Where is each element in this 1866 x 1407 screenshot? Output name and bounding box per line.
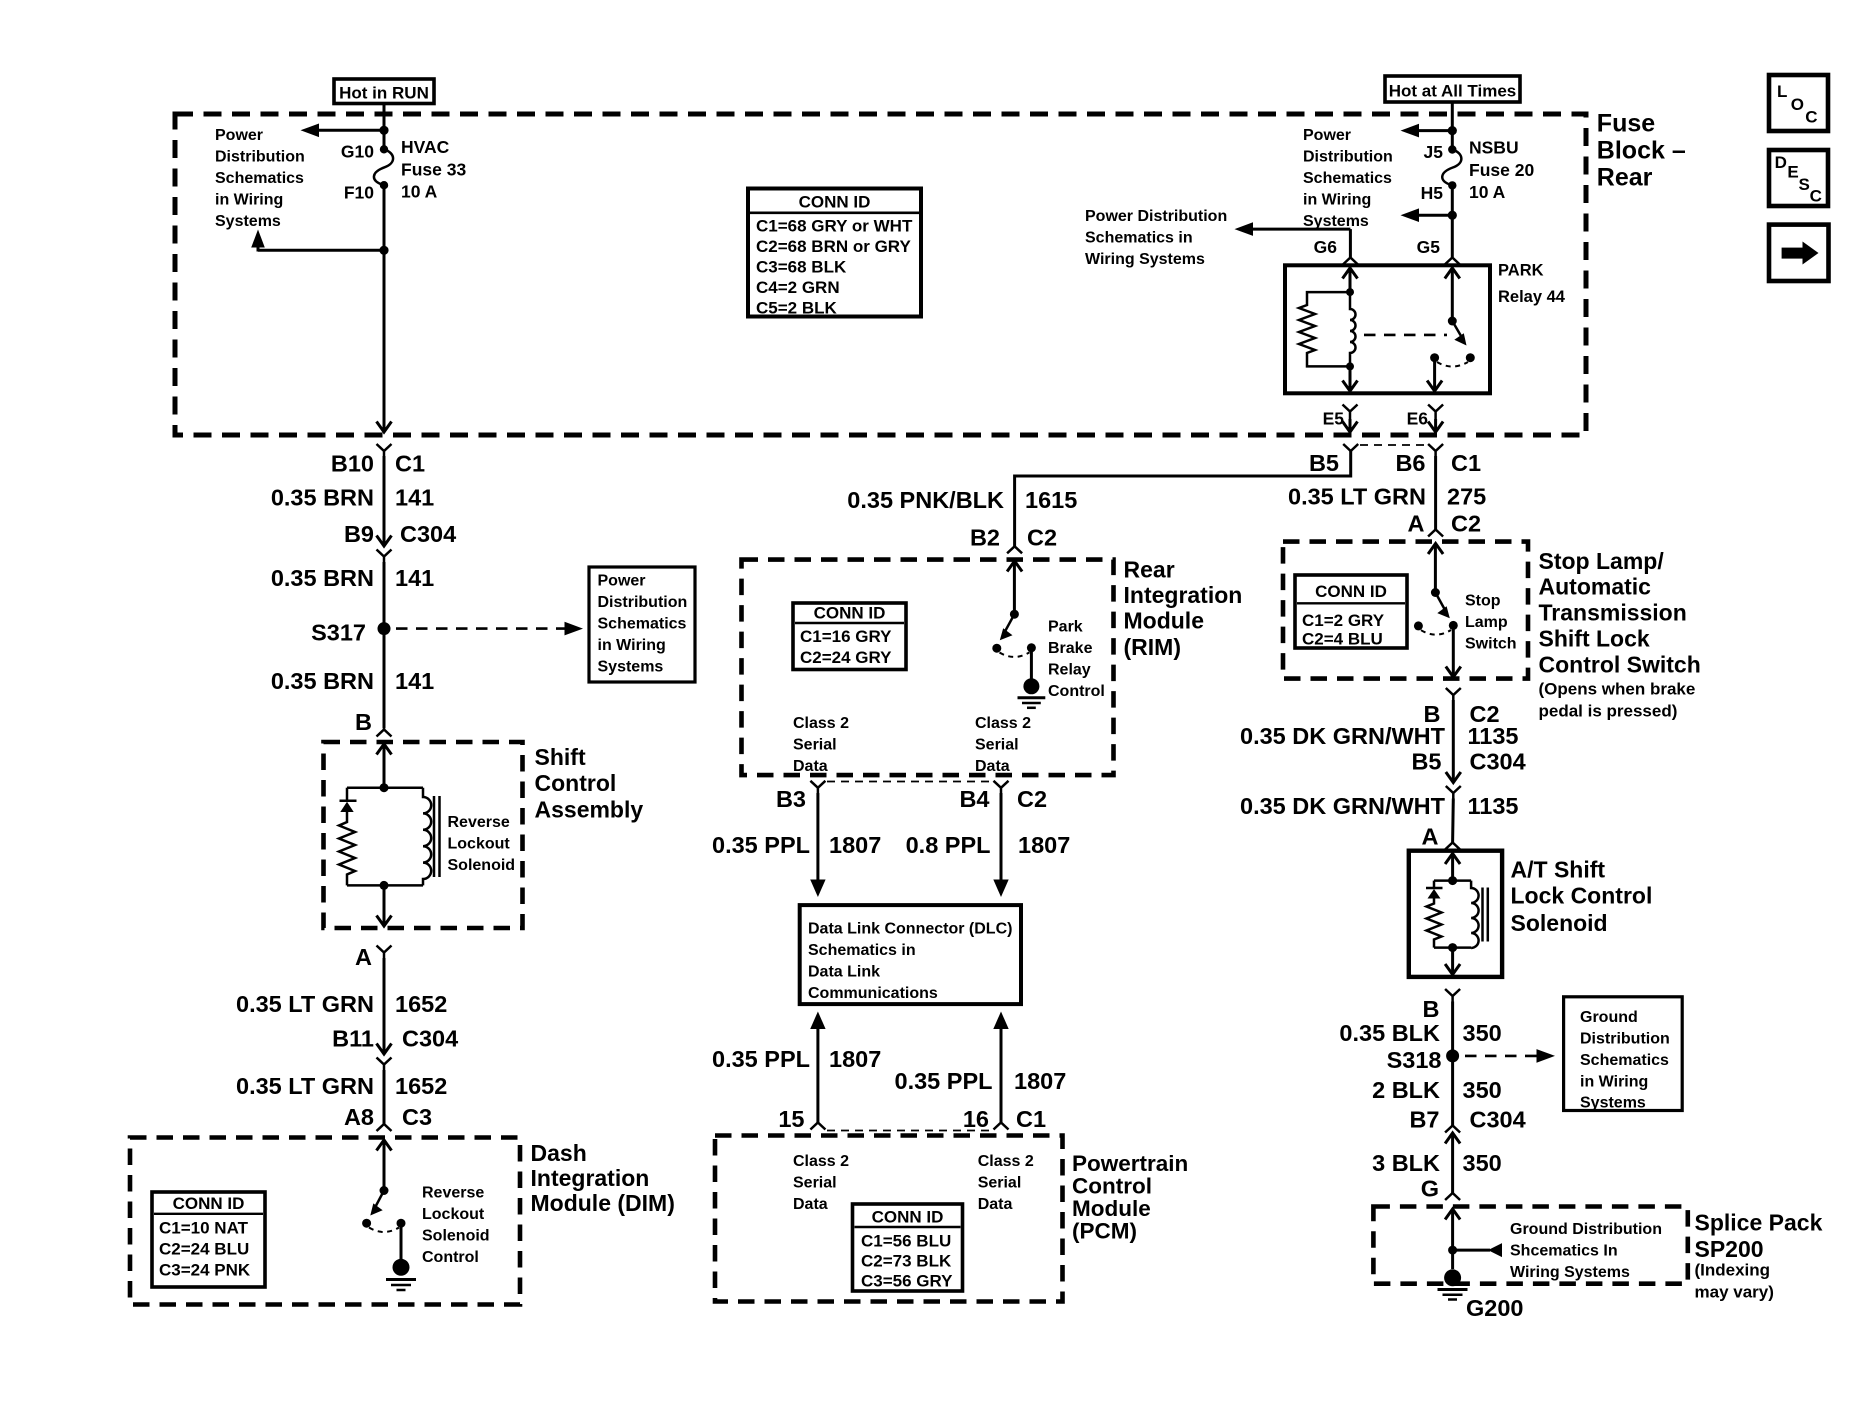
svg-text:B5: B5 bbox=[1309, 450, 1339, 476]
pin labels B3 / B4 / C2 bbox=[776, 786, 1047, 812]
svg-text:Hot at All Times: Hot at All Times bbox=[1389, 82, 1517, 101]
dashed reference arrow from S318 bbox=[1465, 1049, 1555, 1063]
label Powertrain Control Module (PCM) bbox=[1072, 1151, 1188, 1244]
connector chevron B (shift control entry) bbox=[377, 730, 392, 737]
relay switch pivot bbox=[1448, 317, 1457, 326]
svg-text:Fuse 33: Fuse 33 bbox=[401, 160, 466, 180]
svg-text:Data: Data bbox=[975, 758, 1010, 775]
wire: entry arrow inside stop lamp box bbox=[1428, 544, 1443, 593]
svg-text:0.35 BRN: 0.35 BRN bbox=[271, 565, 374, 591]
wire: long arrow from G6 to power distribution reference bbox=[1235, 222, 1351, 257]
svg-text:CONN ID: CONN ID bbox=[814, 604, 886, 623]
svg-text:(RIM): (RIM) bbox=[1124, 634, 1181, 660]
svg-text:Control: Control bbox=[535, 770, 617, 796]
wire: entry arrow inside splice pack bbox=[1445, 1209, 1460, 1269]
svg-text:F10: F10 bbox=[344, 183, 374, 203]
svg-text:0.35 BLK: 0.35 BLK bbox=[1339, 1020, 1440, 1046]
node: coil bottom bbox=[1346, 362, 1354, 370]
svg-text:C304: C304 bbox=[400, 521, 456, 547]
ground (reverse lockout solenoid control) bbox=[386, 1259, 416, 1290]
svg-text:Brake: Brake bbox=[1048, 640, 1093, 657]
forward arrow key box bbox=[1769, 225, 1829, 281]
svg-text:Splice Pack: Splice Pack bbox=[1695, 1210, 1823, 1236]
svg-text:Data: Data bbox=[978, 1196, 1013, 1213]
connector chevron B (below stop lamp) bbox=[1446, 688, 1461, 700]
svg-text:B: B bbox=[1423, 996, 1440, 1022]
label Fuse Block - Rear bbox=[1597, 110, 1686, 192]
wire: entry arrow inside A/T solenoid box bbox=[1445, 854, 1460, 881]
svg-text:Control: Control bbox=[1048, 683, 1105, 700]
svg-text:Integration: Integration bbox=[531, 1165, 650, 1191]
svg-text:Power Distribution: Power Distribution bbox=[1085, 208, 1227, 225]
label Shift Control Assembly bbox=[535, 744, 644, 823]
wire: entry arrow inside shift box bbox=[377, 744, 392, 788]
label Class 2 Serial Data (RIM right) bbox=[975, 715, 1031, 775]
svg-text:2 BLK: 2 BLK bbox=[1372, 1077, 1440, 1103]
thin dashed connector line C1 (below fuse block) bbox=[1360, 444, 1427, 446]
connector chevron G (splice pack entry) bbox=[1445, 1193, 1460, 1200]
label 0.35 LT GRN 1652 bbox=[236, 991, 447, 1017]
svg-text:A8: A8 bbox=[344, 1104, 374, 1130]
svg-text:Class 2: Class 2 bbox=[793, 1153, 849, 1170]
wire: arrow to Power Distribution Schematics (left) bbox=[301, 124, 385, 138]
wire: fuse output down through fuse block bbox=[383, 185, 386, 431]
svg-text:0.35 PPL: 0.35 PPL bbox=[895, 1068, 993, 1094]
pin labels B9 / C304 bbox=[344, 521, 456, 547]
svg-text:Park: Park bbox=[1048, 619, 1083, 636]
connector chevron 16 (PCM top) bbox=[994, 1123, 1009, 1130]
pin labels B7 / C304 bbox=[1409, 1107, 1525, 1133]
A/T solenoid bottom rail bbox=[1434, 946, 1471, 949]
svg-text:C3=56 GRY: C3=56 GRY bbox=[861, 1272, 953, 1291]
label Reverse Lockout Solenoid bbox=[448, 814, 516, 874]
svg-text:0.35 LT GRN: 0.35 LT GRN bbox=[1288, 484, 1426, 510]
svg-text:C1: C1 bbox=[395, 451, 425, 477]
svg-text:1135: 1135 bbox=[1468, 793, 1519, 819]
svg-text:0.35 PPL: 0.35 PPL bbox=[712, 832, 810, 858]
label: Power Distribution Schematics in Wiring Systems (left of G6) bbox=[1085, 208, 1227, 268]
wire: 0.35 DK GRN/WHT 1135 segment 2 bbox=[1451, 799, 1455, 843]
svg-text:1807: 1807 bbox=[1014, 1068, 1066, 1094]
A/T diode clamp (bar + triangle) bbox=[1426, 881, 1443, 899]
svg-text:Stop: Stop bbox=[1465, 593, 1501, 610]
svg-text:0.35 LT GRN: 0.35 LT GRN bbox=[236, 991, 374, 1017]
svg-text:350: 350 bbox=[1463, 1150, 1502, 1176]
svg-text:C1=68 GRY or WHT: C1=68 GRY or WHT bbox=[756, 217, 913, 236]
label 0.35 LT GRN 275 bbox=[1288, 484, 1486, 510]
wire: B4 drop to DLC with arrow bbox=[993, 793, 1008, 897]
svg-text:275: 275 bbox=[1447, 484, 1486, 510]
label Ground Distribution Shcematics In Wiring Systems bbox=[1510, 1221, 1662, 1281]
svg-text:Fuse 20: Fuse 20 bbox=[1469, 160, 1534, 180]
svg-text:(PCM): (PCM) bbox=[1072, 1219, 1137, 1244]
svg-text:Lockout: Lockout bbox=[448, 836, 511, 853]
label Stop Lamp Switch bbox=[1465, 593, 1517, 653]
svg-text:Distribution: Distribution bbox=[215, 149, 305, 166]
label PARK Relay 44 bbox=[1498, 262, 1566, 307]
label Class 2 Serial Data (PCM left) bbox=[793, 1153, 849, 1213]
relay switch entry arrow bbox=[1445, 268, 1460, 321]
svg-text:A: A bbox=[355, 944, 372, 970]
connector chevron G6 bbox=[1343, 258, 1358, 265]
LOC key box bbox=[1769, 75, 1828, 131]
svg-text:B2: B2 bbox=[970, 525, 1000, 551]
svg-text:0.8 PPL: 0.8 PPL bbox=[906, 832, 991, 858]
svg-text:10 A: 10 A bbox=[1469, 182, 1506, 202]
node: solenoid top junction bbox=[380, 783, 389, 792]
svg-text:Serial: Serial bbox=[975, 737, 1019, 754]
svg-text:Lockout: Lockout bbox=[422, 1206, 485, 1223]
svg-text:in Wiring: in Wiring bbox=[1303, 192, 1371, 209]
svg-text:S: S bbox=[1799, 175, 1810, 194]
svg-text:NSBU: NSBU bbox=[1469, 138, 1519, 158]
svg-text:D: D bbox=[1775, 153, 1787, 172]
svg-text:Control: Control bbox=[422, 1249, 479, 1266]
label 0.35 PPL 1807 (15 riser) bbox=[712, 1046, 881, 1072]
fuse block - rear: dashed boundary bbox=[175, 114, 1586, 435]
solenoid bottom rail bbox=[347, 884, 423, 887]
svg-text:Schematics: Schematics bbox=[1303, 170, 1392, 187]
wire: switch output leaves relay bbox=[1427, 358, 1442, 391]
svg-text:C4=2 GRN: C4=2 GRN bbox=[756, 278, 840, 297]
label Reverse Lockout Solenoid Control bbox=[422, 1185, 490, 1267]
svg-text:C3=68 BLK: C3=68 BLK bbox=[756, 258, 847, 277]
svg-text:Solenoid: Solenoid bbox=[1511, 910, 1608, 936]
label 0.35 PPL 1807 (16 riser) bbox=[895, 1068, 1067, 1094]
fuse F33 (HVAC Fuse 33 10 A) bbox=[374, 145, 393, 189]
svg-text:0.35 DK GRN/WHT: 0.35 DK GRN/WHT bbox=[1240, 793, 1446, 819]
relay actuation dashed link bbox=[1364, 334, 1447, 337]
svg-text:1615: 1615 bbox=[1025, 487, 1077, 513]
svg-text:B3: B3 bbox=[776, 786, 806, 812]
wire: E5 drop to block edge with arrow bbox=[1343, 419, 1358, 432]
dashed reference arrow from S317 bbox=[396, 622, 583, 636]
svg-text:Rear: Rear bbox=[1124, 557, 1175, 583]
svg-text:Distribution: Distribution bbox=[1303, 149, 1393, 166]
Hot at All Times tag bbox=[1385, 76, 1520, 102]
wire: Hot in RUN feed down to fuse G10 bbox=[383, 104, 386, 150]
connector chevron A (A/T solenoid entry) bbox=[1445, 843, 1460, 850]
pin labels B2 / C2 bbox=[970, 525, 1057, 551]
svg-text:Ground: Ground bbox=[1580, 1009, 1638, 1026]
relay switch blade bbox=[1452, 321, 1466, 346]
svg-text:Automatic: Automatic bbox=[1539, 574, 1652, 600]
A/T resistor bbox=[1427, 899, 1442, 948]
label 0.35 BRN 141 bbox=[271, 565, 434, 591]
svg-text:Ground Distribution: Ground Distribution bbox=[1510, 1221, 1662, 1238]
svg-text:O: O bbox=[1791, 95, 1804, 114]
svg-text:HVAC: HVAC bbox=[401, 137, 450, 157]
svg-text:350: 350 bbox=[1463, 1020, 1502, 1046]
svg-text:(Indexing: (Indexing bbox=[1695, 1261, 1771, 1280]
pin labels B5 / C304 bbox=[1411, 749, 1525, 775]
svg-text:J5: J5 bbox=[1424, 142, 1444, 162]
connector B7/C304 arrow+chevron (upward) bbox=[1445, 1126, 1460, 1194]
svg-text:Reverse: Reverse bbox=[448, 814, 510, 831]
svg-text:Powertrain: Powertrain bbox=[1072, 1151, 1188, 1176]
wire: 0.35 LT GRN 1652 segment 1 bbox=[383, 958, 386, 1053]
svg-text:Systems: Systems bbox=[598, 659, 664, 676]
reference box: Ground Distribution Schematics in Wiring Systems bbox=[1564, 997, 1683, 1112]
pin labels B / C2 bbox=[1424, 701, 1500, 727]
node: junction at power distribution takeoff bbox=[379, 126, 388, 135]
CONN ID table (PCM) bbox=[853, 1204, 963, 1291]
label Class 2 Serial Data (RIM left) bbox=[793, 715, 849, 775]
shift control assembly dashed box bbox=[324, 742, 523, 928]
svg-text:E5: E5 bbox=[1323, 409, 1345, 429]
svg-text:B10: B10 bbox=[331, 451, 374, 477]
svg-text:C3=24 PNK: C3=24 PNK bbox=[159, 1261, 251, 1280]
label 0.35 PNK/BLK 1615 bbox=[847, 487, 1077, 513]
RIM contact left bbox=[992, 644, 1001, 653]
label: Power Distribution Schematics in Wiring Systems (right inner) bbox=[1303, 127, 1393, 230]
svg-text:Schematics: Schematics bbox=[215, 170, 304, 187]
svg-text:C304: C304 bbox=[402, 1026, 458, 1052]
pin labels 15 / 16 / C1 bbox=[778, 1106, 1046, 1132]
connector chevron A (shift control exit) bbox=[377, 946, 392, 959]
svg-text:Wiring Systems: Wiring Systems bbox=[1085, 251, 1205, 268]
svg-text:Shift: Shift bbox=[535, 744, 586, 770]
wire: coil output leaves relay bbox=[1343, 366, 1358, 391]
wire: PCM 15 up to DLC with arrow bbox=[810, 1012, 825, 1123]
svg-text:G: G bbox=[1421, 1176, 1439, 1202]
connector chevron B3 (RIM bottom) bbox=[810, 781, 825, 793]
svg-text:S317: S317 bbox=[311, 620, 366, 646]
svg-text:Stop Lamp/: Stop Lamp/ bbox=[1539, 548, 1665, 574]
CONN ID table (stop lamp switch) bbox=[1295, 575, 1407, 649]
svg-text:Dash: Dash bbox=[531, 1140, 587, 1166]
svg-text:1652: 1652 bbox=[395, 1073, 447, 1099]
node: solenoid bottom junction bbox=[380, 881, 389, 890]
svg-text:G5: G5 bbox=[1417, 237, 1441, 257]
connector chevron B4 (RIM bottom) bbox=[994, 781, 1009, 793]
svg-text:Power: Power bbox=[215, 127, 263, 144]
label 0.35 BRN 141 bbox=[271, 485, 434, 511]
wire: 0.35 BRN 141 segment 1 bbox=[383, 456, 386, 545]
label HVAC Fuse 33 10 A bbox=[401, 137, 466, 202]
stop lamp contact left bbox=[1414, 621, 1423, 630]
thin dashed connector line C1 (PCM top) bbox=[827, 1130, 992, 1132]
wire: solenoid exit arrow bbox=[377, 885, 392, 926]
svg-text:C1=10 NAT: C1=10 NAT bbox=[159, 1219, 249, 1238]
svg-text:A: A bbox=[1408, 511, 1425, 537]
reference box: Power Distribution Schematics in Wiring Systems bbox=[589, 567, 695, 682]
wire: stop lamp output with exit arrow bbox=[1446, 625, 1461, 677]
svg-text:B: B bbox=[355, 709, 372, 735]
svg-text:Solenoid: Solenoid bbox=[422, 1228, 490, 1245]
A/T solenoid top rail bbox=[1434, 879, 1471, 882]
svg-text:1135: 1135 bbox=[1468, 723, 1519, 749]
wire: fuse 20 output down to relay G5 bbox=[1451, 185, 1454, 257]
svg-text:CONN ID: CONN ID bbox=[799, 193, 871, 212]
svg-text:Shcematics In: Shcematics In bbox=[1510, 1243, 1618, 1260]
splice node S318 bbox=[1446, 1049, 1459, 1062]
solenoid coil winding bbox=[423, 788, 431, 886]
svg-text:Fuse: Fuse bbox=[1597, 110, 1655, 138]
svg-text:Control Switch: Control Switch bbox=[1539, 652, 1701, 678]
DESC key box bbox=[1769, 150, 1828, 206]
svg-text:Class 2: Class 2 bbox=[975, 715, 1031, 732]
svg-text:Schematics in: Schematics in bbox=[1085, 230, 1193, 247]
svg-text:C1: C1 bbox=[1451, 450, 1481, 476]
wire: PCM 16 up to DLC with arrow bbox=[993, 1012, 1008, 1123]
A/T solenoid core bars bbox=[1483, 888, 1488, 942]
connector chevron G5 bbox=[1445, 258, 1460, 265]
svg-text:0.35 BRN: 0.35 BRN bbox=[271, 485, 374, 511]
connector chevron A8 (DIM entry) bbox=[377, 1124, 392, 1131]
note (Opens when brake pedal is pressed) bbox=[1539, 680, 1696, 721]
svg-text:Communications: Communications bbox=[808, 985, 938, 1002]
svg-text:C2=24 GRY: C2=24 GRY bbox=[800, 648, 892, 667]
svg-text:C: C bbox=[1810, 187, 1822, 206]
svg-text:Data Link: Data Link bbox=[808, 964, 880, 981]
wire: entry arrow inside DIM bbox=[377, 1140, 392, 1191]
label Dash Integration Module (DIM) bbox=[531, 1140, 675, 1216]
connector chevron B10/C1 bbox=[377, 444, 392, 456]
svg-text:C3: C3 bbox=[402, 1104, 432, 1130]
data link connector reference box bbox=[800, 905, 1021, 1004]
label 3 BLK 350 bbox=[1372, 1150, 1502, 1176]
svg-text:350: 350 bbox=[1463, 1077, 1502, 1103]
svg-text:may vary): may vary) bbox=[1695, 1283, 1774, 1302]
svg-text:Module: Module bbox=[1072, 1196, 1151, 1221]
svg-text:C1: C1 bbox=[1016, 1106, 1046, 1132]
svg-text:Class 2: Class 2 bbox=[793, 715, 849, 732]
wire: RIM B2 internal arrow down to switch bbox=[1007, 561, 1022, 614]
relay resistor (parallel) bbox=[1299, 292, 1350, 366]
svg-text:SP200: SP200 bbox=[1695, 1236, 1764, 1262]
svg-text:Power: Power bbox=[1303, 127, 1351, 144]
reverse lockout solenoid: top rail bbox=[347, 786, 423, 789]
RIM switch pivot (park brake relay control) bbox=[1010, 610, 1019, 619]
label 0.35 LT GRN 1652 bbox=[236, 1073, 447, 1099]
svg-text:15: 15 bbox=[778, 1106, 804, 1132]
DIM contact left bbox=[362, 1219, 371, 1228]
label 0.35 BLK 350 bbox=[1339, 1020, 1501, 1046]
svg-text:G6: G6 bbox=[1314, 237, 1338, 257]
A/T solenoid coil winding bbox=[1471, 881, 1479, 948]
svg-text:0.35 PPL: 0.35 PPL bbox=[712, 1046, 810, 1072]
svg-text:Control: Control bbox=[1072, 1174, 1152, 1199]
svg-text:Data: Data bbox=[793, 758, 828, 775]
connector chevron 15 (PCM top) bbox=[810, 1123, 825, 1130]
Hot in RUN tag bbox=[334, 79, 434, 104]
wire: 0.35 LT GRN 1652 segment 2 bbox=[383, 1070, 386, 1124]
svg-text:C2: C2 bbox=[1017, 786, 1047, 812]
CONN ID table (RIM) bbox=[793, 603, 906, 670]
wire: hot feed down to fuse J5 bbox=[1451, 102, 1454, 150]
relay contact right bbox=[1466, 353, 1475, 362]
node: splice junction bbox=[1448, 1246, 1457, 1255]
svg-text:Schematics: Schematics bbox=[1580, 1052, 1669, 1069]
wire: ground distribution reference arrow (points left) bbox=[1453, 1243, 1502, 1257]
label 0.35 BRN 141 bbox=[271, 668, 434, 694]
svg-text:C5=2 BLK: C5=2 BLK bbox=[756, 299, 837, 318]
label 2 BLK 350 bbox=[1372, 1077, 1502, 1103]
svg-text:Power: Power bbox=[598, 573, 646, 590]
svg-text:B7: B7 bbox=[1409, 1107, 1439, 1133]
svg-text:16: 16 bbox=[963, 1106, 989, 1132]
svg-text:B6: B6 bbox=[1395, 450, 1425, 476]
DIM contact right bbox=[397, 1219, 406, 1228]
svg-text:Rear: Rear bbox=[1597, 164, 1653, 192]
connector B5/C304 arrow+chevron bbox=[1446, 772, 1461, 799]
svg-text:B11: B11 bbox=[332, 1026, 374, 1052]
svg-text:C: C bbox=[1805, 108, 1817, 127]
label Splice Pack SP200 (Indexing may vary) bbox=[1695, 1210, 1823, 1302]
svg-text:A/T Shift: A/T Shift bbox=[1511, 857, 1606, 883]
svg-text:Relay 44: Relay 44 bbox=[1498, 288, 1566, 306]
svg-text:Serial: Serial bbox=[978, 1175, 1022, 1192]
splice node S317 bbox=[378, 622, 391, 635]
node: A/T solenoid bottom junction bbox=[1448, 943, 1457, 952]
CONN ID table (DIM) bbox=[152, 1192, 265, 1287]
svg-text:CONN ID: CONN ID bbox=[173, 1194, 245, 1213]
svg-text:3 BLK: 3 BLK bbox=[1372, 1150, 1440, 1176]
ground G200 bbox=[1438, 1269, 1468, 1299]
svg-text:G200: G200 bbox=[1466, 1295, 1524, 1321]
node: coil top bbox=[1346, 288, 1354, 296]
wire: 0.35 BLK 350 bbox=[1451, 1002, 1454, 1126]
relay contact left bbox=[1430, 353, 1439, 362]
svg-text:Transmission: Transmission bbox=[1539, 600, 1687, 626]
svg-text:(Opens when brake: (Opens when brake bbox=[1539, 680, 1696, 699]
svg-text:Schematics in: Schematics in bbox=[808, 942, 916, 959]
svg-text:C2=73 BLK: C2=73 BLK bbox=[861, 1252, 952, 1271]
label Stop Lamp/Automatic Transmission Shift Lock Control Switch bbox=[1539, 548, 1701, 678]
node: junction right takeoff 2 bbox=[1448, 211, 1457, 220]
label A/T Shift Lock Control Solenoid bbox=[1511, 857, 1653, 937]
svg-text:1807: 1807 bbox=[829, 832, 881, 858]
svg-text:A: A bbox=[1422, 824, 1439, 850]
svg-text:C304: C304 bbox=[1470, 749, 1526, 775]
svg-text:Hot in RUN: Hot in RUN bbox=[339, 84, 429, 103]
label NSBU Fuse 20 10 A bbox=[1469, 138, 1534, 203]
RIM switch blade bbox=[1000, 614, 1015, 640]
svg-text:in Wiring: in Wiring bbox=[598, 637, 666, 654]
wire: L arrow up-left takeoff bbox=[251, 230, 384, 252]
svg-text:C1=2 GRY: C1=2 GRY bbox=[1302, 611, 1385, 630]
svg-text:Distribution: Distribution bbox=[598, 594, 688, 611]
svg-text:CONN ID: CONN ID bbox=[872, 1208, 944, 1227]
svg-text:10 A: 10 A bbox=[401, 182, 438, 202]
svg-text:in Wiring: in Wiring bbox=[215, 192, 283, 209]
pin labels B5 / B6 / C1 bbox=[1309, 450, 1481, 476]
label Rear Integration Module (RIM) bbox=[1124, 557, 1243, 661]
A/T shift lock control solenoid box bbox=[1409, 851, 1502, 977]
svg-text:141: 141 bbox=[395, 565, 434, 591]
label: Power Distribution Schematics in Wiring Systems (top left) bbox=[215, 127, 305, 230]
svg-text:PARK: PARK bbox=[1498, 262, 1544, 280]
svg-text:C2: C2 bbox=[1027, 525, 1057, 551]
svg-text:Reverse: Reverse bbox=[422, 1185, 484, 1202]
DIM switch blade bbox=[370, 1191, 384, 1216]
svg-text:Serial: Serial bbox=[793, 1175, 837, 1192]
svg-text:in Wiring: in Wiring bbox=[1580, 1074, 1648, 1091]
DIM contact travel arc bbox=[369, 1228, 399, 1233]
stop lamp switch pivot bbox=[1431, 588, 1440, 597]
wire: 0.35 PNK/BLK 1615 run (RIM B2 up and over to B5) bbox=[1015, 451, 1351, 546]
svg-text:Module (DIM): Module (DIM) bbox=[531, 1190, 675, 1216]
svg-text:C1=56 BLU: C1=56 BLU bbox=[861, 1232, 951, 1251]
svg-text:Schematics: Schematics bbox=[598, 616, 687, 633]
pin labels A8 / C3 bbox=[344, 1104, 432, 1130]
stop lamp switch blade bbox=[1435, 593, 1449, 619]
svg-text:C2=4 BLU: C2=4 BLU bbox=[1302, 630, 1383, 649]
svg-text:B4: B4 bbox=[959, 786, 989, 812]
ground (park brake relay control) bbox=[1018, 678, 1046, 708]
svg-text:S318: S318 bbox=[1387, 1047, 1442, 1073]
